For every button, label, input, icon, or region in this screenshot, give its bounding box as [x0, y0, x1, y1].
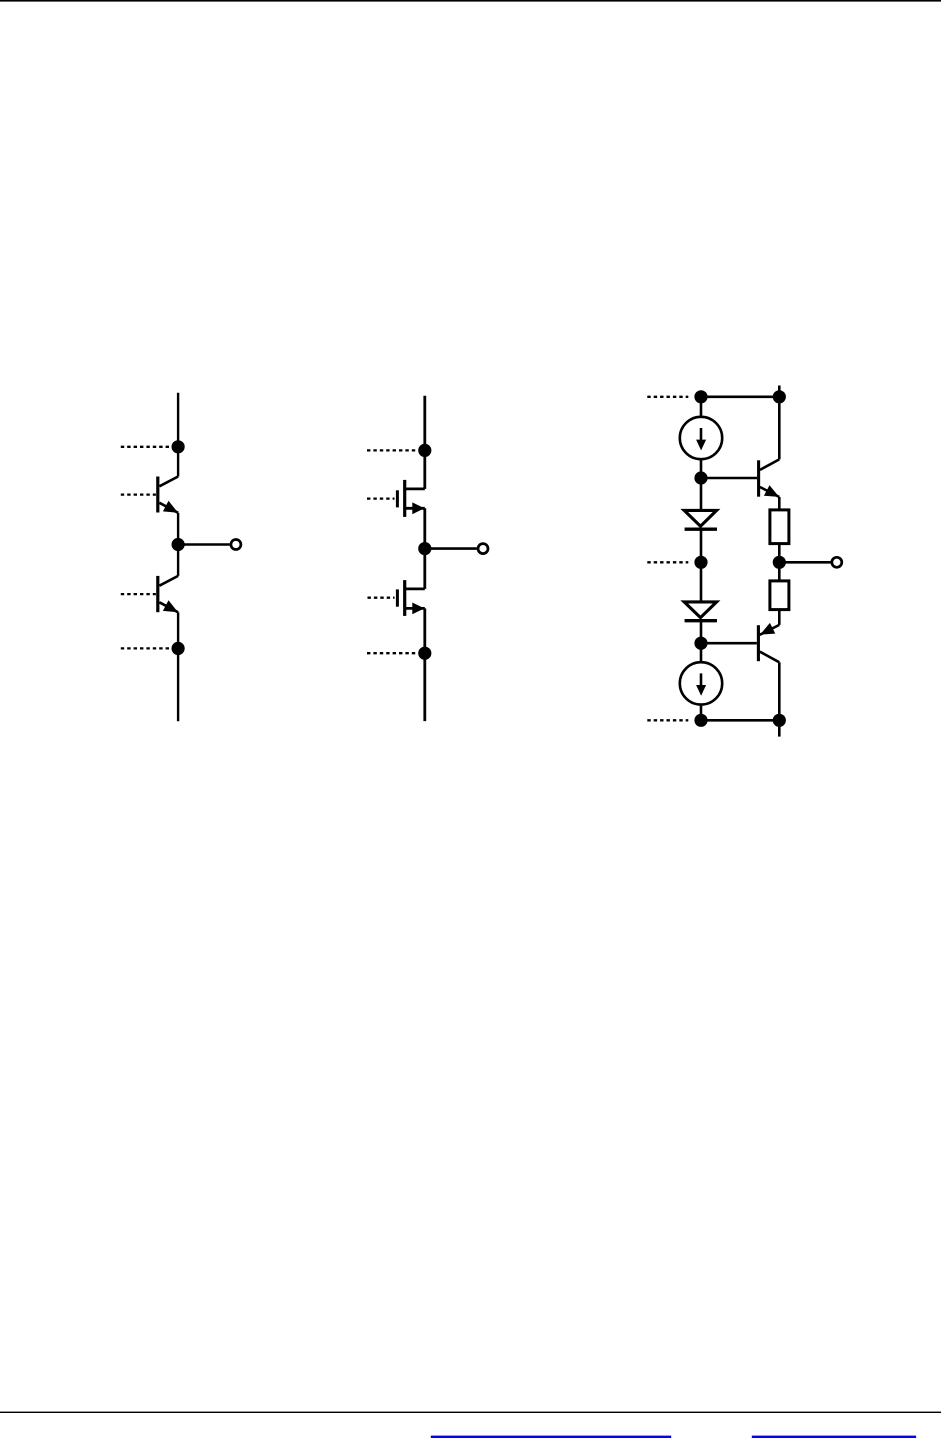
node: middle circuit bottom supply junction: [418, 647, 431, 660]
wire: right output stub: [779, 561, 830, 564]
wire: Q4 collector to bottom rail: [778, 662, 781, 720]
node: left circuit output junction: [172, 538, 185, 551]
wire: stub below bottom-right node: [778, 720, 781, 736]
node: right circuit top-left junction: [694, 390, 707, 403]
terminal: middle output open circle: [478, 544, 488, 554]
wire: dotted gate input of M2: [368, 597, 395, 599]
wire: base node to Q4 base: [701, 642, 757, 645]
node: right circuit bottom-right junction: [773, 714, 786, 727]
mosfet M1 (middle circuit, top NMOS): [397, 480, 424, 517]
wire: dotted input to right top rail: [647, 396, 688, 398]
node: left circuit top supply junction: [172, 440, 185, 453]
wire: dotted base input of Q2: [121, 593, 156, 595]
wire: right output node down to resistor R2: [778, 562, 781, 581]
wire: dotted input to middle top node: [367, 449, 416, 451]
transistor Q4 (right circuit, bottom PNP): [758, 623, 779, 662]
resistor R1: [770, 510, 789, 544]
node: right circuit mid-left junction: [694, 556, 707, 569]
transistor Q2 (left circuit, bottom NPN): [158, 576, 178, 612]
wire: D1 to mid-left node: [700, 529, 703, 562]
node: middle circuit output junction: [418, 542, 431, 555]
wire: stub above top-right node: [778, 386, 781, 397]
wire: Q3 base node down to diode D1: [700, 478, 703, 510]
transistor Q3 (right circuit, top NPN): [759, 459, 780, 497]
wire: I2 to bottom-left node: [700, 704, 703, 720]
wire: M2 source down to bottom rail: [423, 608, 426, 721]
wire: dotted input to right bottom rail: [647, 719, 688, 721]
wire: Q1 emitter down to output node: [177, 513, 179, 545]
wire: D2 to Q4 base node: [700, 621, 703, 644]
wire: right circuit top rail: [701, 395, 779, 398]
node: Q3 base junction: [694, 471, 707, 484]
wire: middle circuit top rail: [423, 396, 426, 489]
wire: dotted input to mid-left node: [647, 561, 688, 563]
node: right circuit bottom-left junction: [694, 714, 707, 727]
wire: base node to Q3 base: [701, 477, 757, 480]
wire: left circuit bottom rail: [177, 648, 179, 721]
wire: I1 to Q3 base node: [700, 459, 703, 478]
node: left circuit bottom supply junction: [172, 642, 185, 655]
wire: Q2 emitter down to bottom node: [177, 612, 179, 648]
wire: dotted base input of Q1: [121, 493, 156, 495]
wire: middle output stub: [425, 547, 477, 550]
diode D1: [684, 510, 717, 529]
node: right circuit top-right junction: [773, 390, 786, 403]
wire: dotted input to left top node: [121, 446, 170, 448]
mosfet M2 (middle circuit, bottom NMOS): [397, 580, 424, 616]
current source I2: [680, 662, 722, 704]
wire: top-right node down to Q3 collector: [778, 397, 781, 460]
wire: output node down to Q2 collector: [177, 545, 179, 576]
transistor Q1 (left circuit, top NPN): [158, 477, 178, 513]
wire: R1 to right output node: [778, 544, 781, 563]
wire: Q4 base node to current source I2: [700, 643, 703, 663]
wire: dotted input to middle bottom node: [367, 652, 416, 654]
diode D2: [684, 602, 717, 621]
wire: right circuit bottom rail: [701, 719, 779, 722]
wire: M1 source down to output node and M2 drain: [423, 508, 426, 589]
terminal: left output open circle: [231, 540, 241, 550]
node: Q4 base junction: [694, 637, 707, 650]
current source I1: [680, 417, 722, 459]
node: right circuit output junction: [773, 556, 786, 569]
wire: top-left node to current source I1: [700, 397, 703, 417]
terminal: right output open circle: [832, 557, 842, 567]
wire: mid-left node to diode D2: [700, 562, 703, 602]
wire: dotted input to left bottom node: [121, 647, 170, 649]
wire: left output stub: [178, 543, 230, 546]
resistor R2: [770, 581, 789, 610]
node: middle circuit top supply junction: [418, 444, 431, 457]
wire: left circuit top rail: [177, 393, 179, 477]
wire: dotted gate input of M1: [367, 497, 395, 499]
wire: R2 to Q4 emitter: [778, 610, 781, 625]
wire: Q3 emitter to resistor R1: [778, 497, 781, 510]
